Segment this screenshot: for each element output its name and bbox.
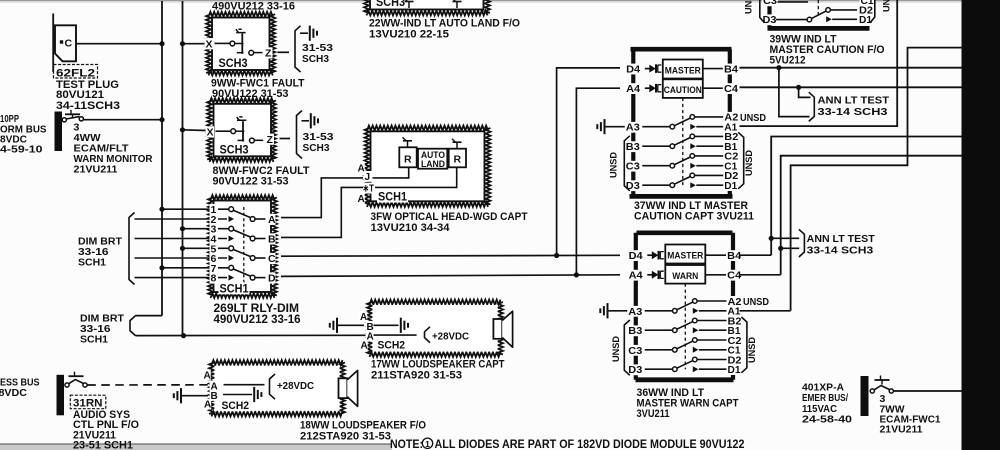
relay contact pin 5 — [229, 246, 234, 251]
connector 62FL2 test plug body — [55, 25, 76, 61]
pin B3 label — [625, 141, 641, 153]
svg-text:C3: C3 — [628, 346, 642, 357]
svg-text:D3: D3 — [628, 365, 642, 376]
label SCH3 — [303, 142, 330, 154]
wire X to contact — [215, 42, 231, 44]
unit 22WW hatched border (clipped top) — [364, 0, 490, 15]
label 33-16 — [80, 323, 111, 335]
shield A label — [360, 340, 368, 352]
label 8VDC (clipped) — [0, 133, 27, 145]
wire CAUTION to C4 — [703, 87, 723, 89]
wire B3 to contact — [645, 329, 673, 331]
svg-text:5VU212: 5VU212 — [770, 55, 806, 67]
relay throw arrow pin 6 — [229, 255, 235, 261]
contact A2 — [690, 115, 695, 120]
wire arrow to A1 — [696, 126, 723, 128]
ground (capacitor) internal 17WW — [401, 318, 408, 333]
pin X label — [206, 126, 215, 138]
wire contact to output A — [255, 218, 265, 220]
wire 37WW A1 to top edge — [740, 0, 898, 126]
svg-text:C1: C1 — [861, 0, 874, 7]
svg-text:3VU211: 3VU211 — [637, 408, 670, 420]
contact B2 — [693, 318, 698, 323]
ground external 17WW B — [330, 318, 337, 333]
pin Z label — [266, 134, 275, 146]
contact A2 — [693, 299, 698, 304]
svg-text:Z: Z — [267, 134, 274, 146]
switch FWC2 lower tick — [238, 139, 245, 141]
junction ANN tap — [778, 246, 783, 251]
throw arrow B1 — [690, 143, 696, 149]
pin A1 label — [727, 306, 742, 318]
relay wiper 3 — [233, 250, 250, 257]
wire DIM BRT to relay pin 8 — [135, 277, 228, 279]
label ECAM/FLT — [74, 143, 130, 155]
label 31-53 — [302, 42, 333, 54]
pin A label — [357, 163, 365, 175]
svg-text:212STA920 31-53: 212STA920 31-53 — [300, 430, 391, 442]
wire 37WW C4 to edge connector — [740, 86, 962, 88]
wire relay C to 36WW D4 — [281, 254, 620, 257]
label 3 — [74, 122, 80, 134]
lamp symbol right — [452, 139, 462, 149]
auto land legend box — [418, 149, 447, 169]
switch 31RN actuator — [69, 372, 84, 377]
brace UNSD left 39WW (clipped) — [760, 0, 765, 23]
label 18WW LOUDSPEAKER F/O — [300, 420, 426, 432]
label MASTER — [667, 251, 703, 262]
wire to ground ref — [302, 120, 310, 122]
ground (capacitor) internal 18WW — [254, 387, 261, 402]
top scan edge — [0, 0, 1000, 1]
svg-text:A3: A3 — [628, 307, 642, 318]
pin D1 label — [723, 180, 738, 192]
label SCH3 — [219, 144, 250, 157]
brace UNSD right 37WW — [738, 132, 744, 189]
wire C3 to contact — [642, 165, 670, 167]
label 4WW — [74, 132, 101, 144]
switch FWC2 contact b — [250, 138, 255, 143]
wire ground to pin B — [338, 324, 364, 326]
svg-text:SCH3: SCH3 — [303, 142, 330, 154]
label 17WW LOUDSPEAKER CAPT — [371, 359, 505, 371]
junction on v1 — [159, 265, 164, 270]
label UNSD after A2 — [743, 297, 769, 308]
label MASTER — [665, 66, 701, 77]
wire C3 row (clipped) — [778, 1, 809, 3]
junction on v1 — [159, 41, 164, 46]
label 33-14 SCH3 — [807, 244, 874, 256]
svg-text:SCH3: SCH3 — [302, 53, 329, 65]
wire DIM BRT to 17WW pin A — [136, 334, 367, 336]
contact C3 — [670, 163, 675, 168]
svg-text:B: B — [268, 234, 276, 246]
svg-text:CAUTION CAPT 3VU211: CAUTION CAPT 3VU211 — [634, 210, 754, 222]
wire v1 to relay pin 7 — [162, 267, 229, 269]
wire v2 to relay pin 3 — [183, 228, 229, 230]
junction D tap — [574, 272, 579, 277]
switch wiper A3-A2 — [677, 302, 693, 310]
svg-text:24-58-40: 24-58-40 — [802, 413, 852, 425]
svg-text:UNSD: UNSD — [882, 0, 893, 12]
wire arrow to D1 — [832, 18, 857, 20]
relay pin 4 label — [210, 233, 219, 245]
pin B1 label — [723, 141, 738, 153]
unit 3FW optical head hatched border — [365, 126, 491, 207]
wire MASTER to B4 — [703, 68, 723, 70]
svg-text:C: C — [65, 38, 73, 50]
switch 31RN contact right — [83, 383, 87, 387]
wire X to contact — [216, 130, 232, 132]
right scan border band — [962, 0, 1000, 450]
pin D3 label — [762, 14, 778, 26]
pin D4 label — [628, 250, 644, 262]
relay pin 7 label — [210, 263, 219, 275]
label SCH1 — [80, 334, 108, 346]
brace FWC2 off-sheet ref — [297, 111, 303, 159]
relay output contact C — [250, 256, 255, 261]
label SCH2 — [221, 400, 251, 413]
pin B2 label — [723, 131, 739, 143]
relay pin 8 label — [210, 272, 219, 284]
pin C1 label — [727, 345, 742, 357]
wire C3 to contact — [645, 349, 673, 351]
svg-text:WARN: WARN — [672, 271, 698, 282]
label TEST PLUG — [56, 79, 119, 91]
brace +28VDC — [270, 374, 276, 399]
svg-text:SCH3: SCH3 — [219, 58, 248, 70]
label UNSD vertical left — [609, 152, 620, 178]
switch 4WW arm — [66, 117, 80, 119]
label EMER BUS/ — [802, 392, 848, 404]
junction on v2 — [180, 127, 185, 132]
svg-text:LAND: LAND — [421, 159, 445, 169]
pin D4 label — [625, 64, 641, 76]
relay contact pin 1 — [229, 207, 234, 212]
relay output B label — [267, 233, 276, 245]
svg-text:SCH2: SCH2 — [222, 400, 250, 412]
brace UNSD right 39WW (clipped) — [870, 0, 875, 23]
label 5VU212 — [770, 55, 806, 67]
relay pin 2 label — [210, 214, 219, 226]
bus bar 10PP NORM BUS — [55, 112, 63, 152]
label 90VU122 31-53 — [213, 176, 289, 188]
label ANN LT TEST — [807, 233, 876, 245]
lamp symbol left — [403, 137, 413, 147]
wire contact to C2 — [697, 339, 726, 341]
svg-text:B4: B4 — [727, 251, 741, 262]
pin B2 label — [727, 316, 743, 328]
unit 8WW-FWC2 hatched border — [207, 98, 276, 162]
label 37WW IND LT MASTER — [634, 200, 748, 212]
svg-text:CAUTION: CAUTION — [664, 85, 702, 96]
wire arrow to B1 — [699, 329, 727, 331]
pin C3 label — [627, 345, 643, 357]
svg-text:D: D — [268, 273, 276, 285]
throw arrow C1 — [693, 347, 699, 353]
relay output contact A — [250, 217, 255, 222]
pin J label — [364, 171, 372, 183]
svg-text:UNSD: UNSD — [743, 297, 769, 308]
wire D3 to contact — [645, 368, 673, 370]
wire contact to C2 — [695, 155, 724, 157]
relay output D label — [267, 272, 276, 284]
wire test plug to bus v1 — [76, 43, 162, 45]
label 10PP (clipped) — [0, 113, 19, 125]
pin C4 label — [723, 83, 739, 95]
wire 37WW B4 to edge connector — [740, 67, 962, 69]
label 28VDC (clipped) — [0, 387, 27, 399]
pin C1 label — [723, 161, 738, 173]
wire arrow to C1 — [699, 349, 727, 351]
annunciator 36WW outline bottom bar — [636, 377, 734, 382]
switch 4WW contact left — [62, 118, 66, 122]
pin D3 label — [625, 180, 641, 192]
button cell WARN — [665, 265, 705, 284]
svg-text:33-14 SCH3: 33-14 SCH3 — [807, 244, 874, 256]
pin D1 label — [858, 14, 873, 26]
wire 36WW C4 to riser — [740, 274, 781, 276]
contact D3 — [670, 183, 675, 188]
shield A label — [203, 370, 211, 382]
label LAND — [421, 159, 445, 169]
svg-text:UNSD: UNSD — [744, 0, 755, 14]
unit 3FW optical head inner box — [371, 131, 485, 201]
switch 7WW actuator stem — [881, 380, 883, 385]
wire contact to output B — [255, 238, 265, 240]
wire arrow to D1 — [696, 184, 723, 186]
button cell CAUTION — [663, 79, 703, 98]
switch 31RN contact left — [65, 383, 69, 387]
wire Z stub — [280, 138, 291, 140]
relay output A label — [267, 214, 276, 226]
pin A label — [366, 331, 374, 343]
wire D3 to contact — [642, 184, 670, 186]
svg-text:SCH1: SCH1 — [80, 334, 108, 346]
svg-text:211STA920 31-53: 211STA920 31-53 — [371, 369, 462, 381]
label MASTER CAUTION F/O — [770, 44, 885, 56]
svg-text:D4: D4 — [626, 64, 640, 75]
switch wiper C3-C2 — [674, 157, 690, 165]
wire D3 to contact — [776, 19, 807, 21]
wire contact to B2 — [697, 320, 726, 322]
junction C4 tap — [796, 85, 801, 90]
pin A2 label — [723, 112, 739, 124]
svg-text:D4: D4 — [629, 251, 643, 262]
switch FWC1 T-handle — [236, 29, 246, 32]
connector 62FL2 test plug spine — [52, 14, 54, 73]
annunciator 36WW outline top bar — [637, 231, 733, 236]
contact A3 — [673, 309, 678, 314]
annunciator 37WW outline right border — [728, 49, 732, 196]
contact B3 — [673, 328, 678, 333]
wire DIM BRT to relay pin 4 — [135, 238, 228, 240]
label UNSD vertical left — [611, 336, 622, 362]
label 62FL2 — [56, 68, 95, 80]
svg-text:B3: B3 — [628, 326, 642, 337]
wire MASTER to B4 — [705, 254, 726, 256]
switch 4WW actuator stem — [72, 114, 74, 118]
relay pin 6 label — [210, 253, 219, 265]
pin C2 label — [727, 335, 743, 347]
svg-text:C3: C3 — [763, 0, 777, 7]
wire pin B internal — [223, 394, 252, 396]
wire edge connector to 36WW B4 riser — [771, 137, 961, 256]
contact C2 — [693, 338, 698, 343]
pin A2 label — [727, 296, 743, 308]
wire contact to output C — [255, 257, 265, 259]
label 211STA920 31-53 — [371, 369, 462, 381]
label UNSD vertical (clipped) — [882, 0, 893, 12]
svg-text:+28VDC: +28VDC — [277, 380, 314, 392]
shield A label — [359, 311, 367, 323]
wire contact to D2 — [695, 174, 724, 176]
svg-text:C3: C3 — [626, 162, 640, 173]
wire pin J to R left — [373, 167, 409, 178]
pin B1 label — [727, 325, 742, 337]
loudspeaker 17WW symbol — [493, 311, 512, 347]
shield A label — [203, 399, 211, 411]
label MASTER WARN CAPT — [637, 397, 739, 409]
svg-text:28VDC: 28VDC — [0, 387, 27, 399]
label UNSD after A2 — [740, 113, 766, 124]
label 62FL2 dashed box — [54, 65, 98, 79]
svg-text:MASTER: MASTER — [665, 66, 701, 77]
button cell MASTER — [663, 60, 703, 79]
label SCH2 — [377, 339, 407, 352]
label 490VU212 33-16 — [212, 1, 295, 13]
wire ground to 18WW pin B — [182, 395, 208, 397]
relay output contact B — [250, 236, 255, 241]
wire relay B to pin T — [281, 187, 363, 237]
svg-text:B: B — [211, 391, 218, 402]
wire A3 to contact — [642, 126, 670, 128]
pin A3 label — [627, 306, 643, 318]
relay wiper 2 — [233, 230, 250, 237]
label 21VU211 — [73, 429, 116, 441]
switch wiper C3-C2 — [677, 341, 693, 349]
ground to A3 — [600, 303, 607, 318]
label 4-59-10 (clipped) — [0, 144, 43, 156]
svg-text:490VU212 33-16: 490VU212 33-16 — [214, 314, 301, 326]
ground (capacitive) ref FWC1 — [310, 26, 317, 41]
svg-text:A3: A3 — [626, 123, 640, 134]
pin C3 label (clipped) — [762, 0, 778, 7]
relay contact pin 3 — [229, 226, 234, 231]
button cell MASTER — [665, 245, 705, 264]
svg-text:D3: D3 — [626, 181, 640, 192]
ground external 18WW B — [174, 388, 181, 403]
lamp cell R right — [449, 149, 466, 168]
unit 17WW interior mask — [373, 305, 498, 352]
brace DIM BRT lower — [130, 316, 136, 336]
wire bus v2 — [182, 1, 184, 336]
junction B4 tap — [776, 65, 781, 70]
svg-text:R: R — [454, 154, 462, 166]
junction on v2 — [180, 41, 185, 46]
svg-text:4-59-10: 4-59-10 — [0, 144, 43, 156]
label 212STA920 31-53 — [300, 430, 391, 442]
junction v2 end — [181, 333, 186, 338]
pin A label — [210, 381, 218, 393]
relay mechanical link (dashed) — [243, 207, 245, 281]
wire contact to bar — [235, 43, 244, 45]
svg-text:SCH3: SCH3 — [376, 0, 405, 9]
diode to MASTER — [647, 251, 664, 260]
throw arrow D1 — [693, 366, 699, 372]
label 8WW-FWC2 FAULT — [213, 165, 310, 177]
svg-text:A: A — [268, 214, 276, 226]
label 33-14 SCH3 — [818, 106, 888, 118]
pushbutton mechanical link (dashed) — [684, 284, 686, 370]
svg-text:X: X — [207, 127, 214, 139]
contact A3 — [670, 124, 675, 129]
svg-text:SCH3: SCH3 — [220, 145, 249, 157]
wire pin A internal — [224, 384, 265, 386]
svg-text:A: A — [204, 370, 211, 381]
wire 36WW B4 to riser — [740, 254, 772, 256]
wire arrow to D1 — [699, 368, 727, 370]
note circled 1 — [422, 438, 432, 448]
switch FWC2 T-handle — [237, 117, 247, 120]
bus bar ESS BUS — [57, 375, 65, 416]
lamp symbol (clipped) — [404, 0, 414, 8]
label 31RN dashed box — [70, 395, 106, 409]
svg-text:R: R — [404, 154, 412, 166]
brace UNSD left 37WW — [624, 136, 630, 191]
svg-text:UNSD: UNSD — [744, 150, 755, 176]
svg-text:D1: D1 — [728, 365, 741, 376]
bottom-left scan edge line — [0, 443, 392, 445]
svg-text:A: A — [361, 340, 368, 351]
wire audio switch to 18WW pin A (dashed) — [87, 384, 208, 386]
label CAUTION CAPT 3VU211 — [634, 210, 754, 222]
label 39WW IND LT — [770, 33, 837, 45]
label 23-51 SCH1 — [73, 439, 133, 450]
label WARN — [672, 271, 698, 282]
label 401XP-A — [802, 382, 844, 394]
svg-text:21VU211: 21VU211 — [880, 424, 923, 436]
relay throw arrow pin 2 — [229, 216, 235, 222]
svg-text:A4: A4 — [629, 271, 643, 282]
wire contact to A2 — [697, 300, 726, 302]
relay pin 5 label — [210, 243, 219, 255]
relay 269LT hatched border — [208, 195, 277, 298]
svg-text:13VU210 34-34: 13VU210 34-34 — [371, 222, 451, 234]
wire contact to output D — [255, 277, 265, 279]
annunciator 37WW outline left border — [631, 49, 635, 196]
label SCH3 — [218, 57, 249, 70]
contact D2 — [690, 173, 695, 178]
switch 7WW contact left — [870, 389, 874, 393]
brace DIM BRT upper — [129, 213, 135, 285]
wire DIM BRT to relay pin 2 — [135, 218, 228, 220]
label SCH3 — [302, 53, 329, 65]
svg-text:8: 8 — [211, 273, 217, 285]
svg-text:A: A — [204, 400, 211, 411]
relay pin 1 label — [210, 204, 219, 216]
wire pin T to R right — [374, 167, 457, 187]
label 31RN — [73, 398, 103, 410]
ground (capacitive) ref FWC2 — [311, 113, 318, 128]
svg-text:UNSD: UNSD — [740, 113, 766, 124]
label +28VDC — [432, 330, 469, 342]
label 33-16 — [78, 246, 109, 258]
pin X label — [205, 38, 214, 50]
svg-text:1: 1 — [425, 439, 430, 449]
wire arrow to B1 — [696, 145, 723, 147]
svg-text:A4: A4 — [626, 84, 640, 95]
